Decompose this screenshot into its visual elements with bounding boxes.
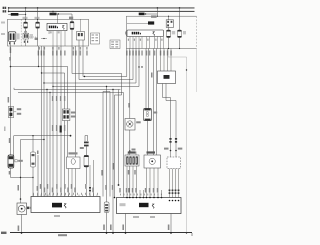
wire B drop from bus 15 (52, 11, 54, 14)
connector box bottom left (31, 197, 100, 213)
wire X2 down b (82, 40, 84, 46)
node (49, 92, 50, 93)
pin number marks below box A (10, 47, 88, 50)
node on bus 15 (52, 11, 53, 12)
stub from connector (14, 111, 17, 113)
wire X2 up (80, 19, 82, 31)
label right of box E dots (178, 148, 183, 150)
label on left chain wire (8, 97, 10, 103)
circle above X1 (24, 31, 27, 34)
node (43, 139, 44, 140)
wires below box D (147, 168, 159, 198)
net label 30 (3, 7, 7, 9)
node on B top (168, 16, 169, 17)
wire right vertical v120 (118, 90, 120, 186)
faint right route (168, 49, 187, 234)
wire F9 down (179, 38, 181, 49)
label on wire to motor P (18, 185, 20, 191)
wire X5 to fuse F6 (85, 146, 87, 155)
ground node (21, 232, 23, 234)
margin label left a (1, 22, 5, 24)
node (43, 82, 44, 83)
motor P1 pump (17, 203, 27, 215)
label under right box b (150, 216, 155, 218)
node (20, 198, 22, 200)
wire drop pin 38.5 (38, 46, 40, 67)
pin marks under K1 and X1 (9, 41, 28, 45)
wire bundle from A1 pin 61 (60, 46, 62, 197)
amp label above F1 (23, 17, 28, 19)
wire long horizontal h1 (11, 67, 68, 110)
wire staircase s5 (53, 49, 139, 87)
wire drop from bus 30 to K2 (156, 8, 158, 16)
wire K2 top (168, 16, 170, 20)
bold label on bundle (60, 126, 62, 133)
wire F8 down (168, 38, 170, 49)
ground node (170, 232, 172, 234)
node (32, 177, 33, 178)
inline connector on bundle (62, 109, 70, 121)
wire under motor M1 (129, 130, 131, 198)
fuse F2 (36, 22, 40, 28)
labels on bundle wires mid (52, 125, 65, 131)
label C relay feed (139, 13, 145, 16)
label right of F4 (153, 112, 157, 114)
motor M1 (125, 119, 135, 131)
wire B to A1 top (57, 14, 59, 23)
label D inner (148, 21, 154, 24)
pin number row above left box (33, 193, 98, 195)
connector marks X5 (84, 142, 89, 144)
node (32, 135, 33, 136)
node (38, 66, 39, 67)
fuse box A divider (dashed) (20, 19, 22, 46)
wire F4 to motor box D (147, 121, 149, 155)
label under left box (54, 215, 60, 217)
relay box B top border (126, 15, 196, 17)
labels on block C wires (128, 170, 129, 175)
amp label above F2 (35, 17, 40, 19)
wire F2 down (37, 28, 39, 46)
node (58, 13, 59, 14)
inline connector marks on T out a (169, 138, 177, 143)
ground node (186, 232, 187, 233)
label on v153 (151, 73, 153, 78)
wire drop fuse F2 (37, 8, 39, 22)
wire colour labels row under box A (10, 49, 88, 56)
connector hook X5 (85, 136, 88, 142)
fuse F3 (70, 22, 74, 30)
pin number marks below box B (128, 39, 163, 41)
node (106, 86, 107, 87)
stubs above block C (127, 152, 129, 156)
junction dots on right box top (114, 197, 163, 199)
relay box B left border (125, 16, 127, 48)
wire F3 down (71, 30, 73, 47)
wire X2 down a (78, 40, 80, 46)
bus 30 wire (8, 7, 195, 9)
node (145, 13, 146, 14)
dashed link X1 (29, 36, 36, 38)
inline connector on left chain (8, 107, 13, 118)
node (25, 14, 26, 15)
wire to fuse F5 (32, 136, 34, 152)
label right of M1 (136, 121, 141, 123)
tick label under G1 (9, 171, 11, 175)
dashed connector box E (167, 157, 181, 169)
wire bus link (8, 8, 10, 11)
wire mini connector feed a (145, 49, 147, 109)
label on v114 (113, 163, 115, 170)
node on bus 15 (8, 11, 10, 13)
faint right border tail (196, 49, 198, 93)
inline connector F4 (144, 108, 152, 121)
wire to comp G2 (75, 46, 77, 157)
connector block C (125, 155, 139, 166)
fuse F1 (24, 22, 28, 28)
tiny label above F3 (69, 17, 73, 19)
relay box B right border dashed (196, 16, 198, 48)
fuse F8 (167, 30, 171, 38)
node (41, 72, 42, 73)
node (175, 150, 177, 152)
label above stub x38 (37, 151, 39, 155)
dots where box E wires meet right box (169, 200, 180, 202)
wire staircase s4 (44, 49, 136, 84)
label right of M1 out dot (132, 149, 136, 151)
node (20, 177, 21, 178)
node (84, 76, 85, 77)
label beside G1 (18, 160, 23, 162)
wire staircase s2b (83, 46, 127, 77)
control unit A2 box (127, 30, 164, 37)
labels beside connector (17, 108, 21, 115)
sensor G1 (8, 155, 14, 168)
stub wire x38 (37, 155, 39, 197)
node (43, 38, 44, 39)
label under right box a (133, 216, 139, 218)
terminal block X1 (23, 33, 29, 39)
motor box D (144, 155, 161, 168)
pin number row above right box (120, 194, 162, 196)
label left of X5 (80, 147, 84, 149)
wire staircase s3 (79, 46, 133, 80)
label beside K1 (17, 33, 20, 39)
wire long vertical v156 (156, 49, 158, 156)
wire P1 to ground (21, 215, 23, 234)
label at ground drop 171 (168, 225, 170, 231)
node (46, 89, 47, 90)
node faint (186, 69, 187, 70)
connector stub on P1 (27, 207, 30, 210)
label beside X1 (30, 34, 33, 39)
wire G1 down and over (11, 168, 34, 178)
comp G2 box (67, 157, 81, 169)
inner feed wire B (127, 23, 149, 25)
net label 15 (3, 10, 7, 12)
stub segment with node (41, 38, 47, 40)
legend table box 2 (110, 40, 120, 49)
wire long to ground (112, 90, 114, 234)
wire F6 down (85, 167, 87, 197)
label on stub x38 (37, 186, 38, 191)
label above G2 (69, 152, 78, 154)
wire drop to bottom box pin 50 (49, 93, 51, 197)
node (170, 150, 172, 152)
node on bus 30 (157, 7, 159, 9)
pin labels under A1 (50, 31, 60, 33)
inline connector marks below box E (169, 190, 180, 194)
node on border (168, 48, 169, 49)
label at ground drop 21 (18, 226, 20, 232)
wire fuse F3 feed (71, 14, 73, 22)
node on bus 30 (179, 7, 181, 9)
node (129, 150, 130, 151)
wire corner h4 (14, 136, 71, 155)
comp T box (158, 71, 176, 84)
bus 15 wire (8, 10, 195, 12)
wire below connector a (64, 121, 66, 197)
node on box A top (25, 19, 26, 20)
wire drop from bus 30 to F9 (179, 8, 181, 30)
node (52, 86, 53, 87)
node on box A top (37, 19, 38, 20)
wire long horizontal h3 (18, 92, 124, 94)
node on bus 30 (25, 7, 27, 9)
pins below A1 (49, 31, 65, 46)
stub wires into left box right side (90, 160, 94, 197)
wire long horizontal h2 (14, 88, 121, 90)
label on motor feed (128, 103, 130, 108)
label left of K2 (151, 15, 157, 17)
node on border (179, 48, 180, 49)
wire motor feed from box B (129, 49, 131, 119)
wires below G2 (69, 169, 76, 197)
wire staircase s2 (72, 46, 122, 198)
terminal dot v120 (118, 184, 120, 186)
wire X1 to border (25, 39, 27, 46)
ground end tick (191, 233, 193, 236)
text under ground left (58, 234, 67, 236)
wire seg B (50, 13, 73, 15)
ground node (112, 232, 114, 234)
wire F7 to ground (106, 213, 108, 234)
wire left chain from box A (10, 46, 12, 155)
terminal block X2 (77, 32, 85, 41)
ground label 31 (1, 232, 7, 234)
wires below block C (127, 166, 137, 198)
wire below connector b to G2 (67, 121, 69, 158)
margin label left b (1, 33, 5, 35)
inline connector dots (138, 66, 139, 67)
relay box B bottom border (126, 48, 196, 50)
label right of F2 (35, 38, 38, 40)
label at ground drop 106 (103, 225, 105, 231)
node on B top (157, 16, 158, 17)
wire n-turn pair (103, 92, 110, 197)
ground node (106, 232, 108, 234)
wire right box to ground a (125, 214, 127, 234)
wire labels above bottom right box (105, 185, 158, 193)
inline marks on stub 90 (89, 187, 91, 191)
label beside P1 (30, 207, 34, 209)
label beside bundle left (101, 170, 103, 176)
fuse F7 bottom (104, 202, 109, 213)
connector stub on G1 (15, 160, 17, 162)
wire corner h5 to pump (21, 140, 45, 204)
ground bus 31 (10, 232, 192, 234)
wire K1 to border (10, 42, 12, 47)
control unit A1 box (47, 23, 67, 30)
wire seg C (145, 13, 158, 15)
wire drop fuse F1 (25, 8, 27, 22)
wire bundle b1 (41, 46, 43, 197)
wire colour labels row under box B (126, 51, 172, 56)
label above block C (128, 151, 136, 153)
fuse F6 (84, 155, 89, 167)
wires below box E (170, 169, 179, 201)
motor M1 cross strokes (128, 122, 132, 126)
label beside F8 (172, 31, 175, 34)
wires into box E (171, 151, 177, 158)
wire bundle b2 (43, 46, 45, 197)
arrow terminal dot (70, 135, 72, 137)
label beside bundle connector (71, 112, 76, 114)
label left of box E dots (164, 148, 169, 150)
label at ground drop 125 (122, 225, 124, 231)
node on bus 30 (8, 7, 10, 9)
label above box D (147, 151, 156, 153)
wire bundle from A1 pin 57 (56, 46, 58, 197)
label at ground drop 113 (110, 225, 112, 231)
wire comp T out left (163, 84, 171, 151)
legend table box (91, 33, 100, 44)
node (10, 66, 12, 68)
node on bus 30 (37, 7, 39, 9)
pin stubs below box B (130, 37, 164, 49)
label B fuse (50, 13, 57, 16)
wire K2 to F8 (168, 27, 170, 30)
ground node (125, 232, 127, 234)
fuse F5 (31, 152, 36, 167)
relay K1 (8, 32, 16, 42)
relay K2 (166, 20, 173, 28)
labels on bundle wires upper (52, 96, 65, 101)
wire F5 down (32, 167, 34, 197)
fuse box A outline (8, 19, 89, 46)
wire staircase s1 (42, 73, 65, 109)
wires into comp T (161, 49, 172, 72)
label A fuse (11, 13, 19, 16)
connector box bottom right (117, 198, 182, 214)
wires from box D area into right box (140, 190, 162, 198)
fuse F9 (178, 30, 182, 38)
wire drop to bottom box pin 47 (46, 90, 48, 197)
pin left of A2 (124, 32, 126, 35)
wire right box to ground b (170, 214, 172, 234)
wire long to motor box D (153, 49, 155, 156)
pin ticks on bottom left box (34, 195, 98, 197)
wire feed A (8, 13, 25, 15)
margin label mid chain (4, 127, 6, 132)
label on chain (9, 138, 11, 143)
wire into F7 (106, 87, 108, 203)
node (112, 89, 113, 90)
wire labels above bottom left box (40, 184, 94, 192)
wire comp T out right (166, 84, 176, 151)
label beside F9 (183, 31, 186, 34)
label on chain above h1 (9, 57, 11, 61)
wire right vertical v123 (123, 93, 125, 198)
wire mini connector feed b (148, 49, 150, 109)
wire F1 to X1 (25, 28, 27, 33)
wire bundle from A1 pin 53 (52, 46, 54, 197)
